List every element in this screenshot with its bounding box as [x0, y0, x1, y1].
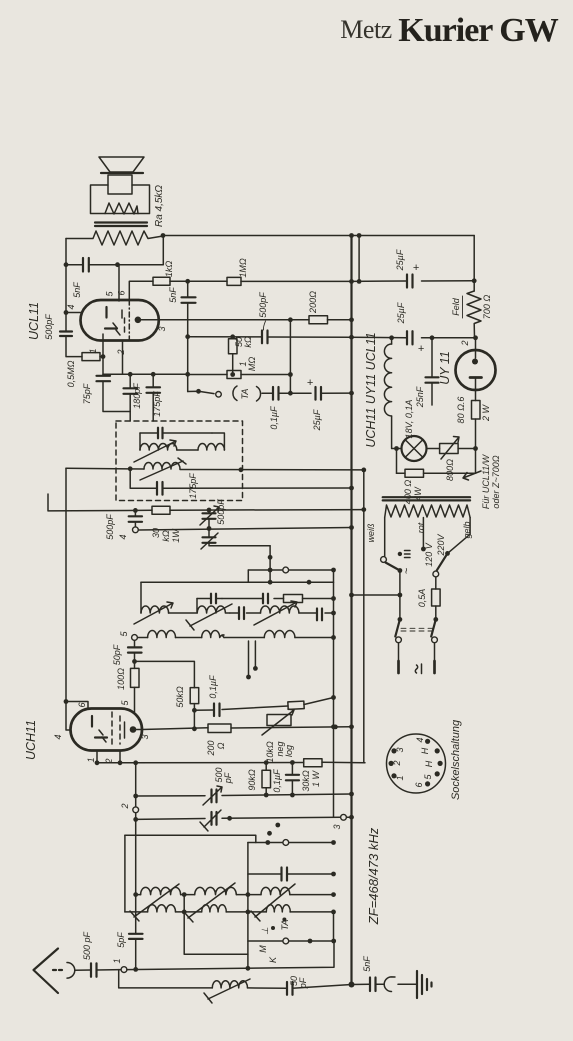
wire weiss tap	[381, 518, 387, 563]
svg-text:H: H	[424, 760, 434, 767]
label 50kOhm	[234, 336, 253, 348]
UCH11 plate	[91, 716, 93, 727]
IF slug T lower	[140, 458, 186, 480]
wire avc	[188, 372, 236, 377]
antenna	[34, 949, 91, 994]
svg-text:200Ω: 200Ω	[308, 291, 318, 314]
capacitor 75pF	[97, 376, 131, 412]
wire B+ corner right	[473, 236, 475, 292]
coil band A2	[148, 631, 176, 638]
svg-text:25µF: 25µF	[312, 409, 322, 431]
wire g2 line	[194, 698, 333, 711]
svg-text:log: log	[284, 745, 294, 757]
slug arrow A1	[134, 602, 173, 624]
coil band C1	[261, 606, 299, 613]
svg-text:700 Ω: 700 Ω	[482, 295, 492, 320]
svg-text:500pF: 500pF	[258, 292, 268, 318]
svg-text:500pF: 500pF	[216, 499, 226, 525]
label 500pF coupling	[258, 292, 268, 330]
switch blade weiss	[386, 563, 403, 573]
wire pin5 stem	[118, 265, 120, 301]
capacitor band a	[211, 594, 222, 604]
wire band vertical 270	[268, 546, 273, 585]
potentiometer 10kOhm	[262, 709, 294, 735]
svg-text:2: 2	[116, 349, 126, 355]
wire 661 branch	[135, 661, 195, 687]
wire B+ bus top	[163, 235, 474, 237]
svg-text:3: 3	[140, 734, 150, 739]
svg-text:6: 6	[414, 782, 424, 787]
label Feld	[451, 296, 463, 318]
wire band rail 582	[141, 580, 334, 585]
svg-text:5nF: 5nF	[168, 287, 178, 303]
svg-text:H: H	[420, 747, 430, 754]
coil band B1	[197, 606, 230, 613]
svg-text:800Ω: 800Ω	[445, 459, 455, 481]
svg-text:+: +	[307, 377, 314, 389]
socket pin labels	[392, 737, 434, 787]
UCL11 pentode bars	[122, 310, 125, 336]
svg-text:175pF: 175pF	[188, 473, 198, 499]
capacitor padder	[248, 868, 336, 881]
resistor 1MOhm	[227, 277, 241, 285]
tube UCL11	[81, 300, 159, 341]
UCL11 diode dot pin3	[135, 317, 159, 324]
wire pin4	[64, 310, 81, 315]
IF coil primary	[140, 433, 198, 450]
svg-text:0,1µF: 0,1µF	[208, 675, 218, 699]
terminal 1 antenna	[112, 941, 334, 972]
terminal 5 band	[119, 631, 137, 641]
UCL11 grid ticks	[113, 323, 120, 335]
svg-text:10kΩ: 10kΩ	[265, 741, 275, 763]
IF coil secondary small	[198, 433, 224, 450]
capacitor 5nF anode	[83, 258, 89, 272]
svg-text:MΩ: MΩ	[247, 357, 257, 371]
wire stubs C right	[246, 641, 258, 679]
wire pin1 down	[101, 341, 106, 376]
capacitor 50pF antenna	[287, 982, 352, 995]
capacitor 500pF avc	[129, 510, 142, 526]
capacitor 0,1uF g2	[214, 704, 220, 717]
slug T osc B1	[184, 883, 235, 922]
svg-text:175pF: 175pF	[152, 391, 162, 417]
wire bus 763	[97, 760, 365, 765]
svg-text:3: 3	[395, 747, 405, 752]
UCH11 hexode bars	[120, 716, 125, 744]
svg-text:90kΩ: 90kΩ	[247, 769, 257, 791]
svg-text:25nF: 25nF	[415, 386, 425, 408]
coil osc B2	[202, 905, 227, 912]
wire osc row2	[125, 910, 336, 915]
coil band B2	[202, 631, 224, 638]
bus main vertical	[349, 233, 355, 987]
svg-text:UY 11: UY 11	[438, 351, 452, 385]
svg-text:50pF: 50pF	[112, 644, 122, 665]
svg-text:1: 1	[86, 757, 96, 762]
svg-text:kΩ: kΩ	[243, 336, 253, 348]
svg-text:200: 200	[206, 740, 216, 756]
UCL11 plate	[105, 307, 107, 318]
capacitor band b	[263, 594, 268, 604]
resistor output primary	[66, 231, 163, 245]
label 500pF b	[214, 767, 233, 784]
capacitor 25uF reservoir	[352, 262, 477, 288]
capacitor 25uF cathode	[307, 377, 352, 400]
wire to node A	[170, 279, 227, 284]
svg-text:Für UCL11/W: Für UCL11/W	[481, 453, 491, 509]
svg-text:3: 3	[157, 326, 167, 331]
terminal 4	[118, 527, 138, 540]
svg-text:2 W: 2 W	[481, 404, 491, 423]
wire osc left 248	[247, 843, 249, 955]
potentiometer 800 Ohm	[427, 437, 478, 460]
wire anode to node	[89, 236, 164, 268]
capacitor 500pF antenna	[91, 963, 121, 977]
lamp	[402, 436, 427, 461]
label 50pF antenna	[289, 976, 308, 989]
coil band C2	[264, 631, 295, 638]
wire jog top	[357, 233, 362, 284]
UCH11 screen dashed	[111, 712, 113, 747]
svg-text:Metz: Metz	[340, 15, 391, 44]
resistor 0,5MOhm	[82, 353, 103, 361]
wire 795	[136, 794, 352, 796]
coil osc B1	[195, 887, 237, 894]
svg-text:2: 2	[392, 760, 402, 766]
svg-text:TA: TA	[240, 389, 250, 400]
label 30kOhm 1W b	[301, 770, 321, 792]
resistor Feld 700 Ohm	[467, 291, 481, 338]
wire pin6 to 1k	[129, 281, 153, 300]
resistor 30kOhm 1W	[152, 506, 170, 514]
svg-text:500pF: 500pF	[105, 514, 115, 540]
bus heater vertical	[361, 468, 366, 763]
svg-text:weiß: weiß	[366, 523, 376, 543]
capacitor 180pF	[124, 374, 138, 421]
wire band right verticals	[331, 570, 336, 817]
pin labels UCH11	[53, 700, 150, 765]
wire osc row1	[136, 892, 336, 897]
capacitor 500pF coupling	[262, 331, 352, 344]
resistor 200 Ohm UCH	[208, 724, 352, 733]
svg-text:120 V: 120 V	[424, 542, 434, 567]
coil osc A2	[148, 905, 176, 912]
capacitor 50pF osc	[128, 640, 142, 663]
transformer core mains	[383, 497, 470, 500]
svg-text:~: ~	[401, 567, 413, 574]
resistor band	[284, 595, 303, 603]
earphone jack	[384, 977, 417, 992]
jack TA	[233, 386, 261, 401]
label plug AC	[415, 664, 421, 674]
resistor 1MOhm avc	[227, 371, 293, 379]
trimmer 500pF osc1	[200, 506, 219, 528]
svg-text:18V, 0,1A: 18V, 0,1A	[404, 400, 414, 439]
svg-text:Sockelschaltung: Sockelschaltung	[450, 719, 462, 800]
svg-text:1: 1	[112, 958, 122, 963]
UCH11 cathode	[95, 736, 107, 738]
svg-text:1kΩ: 1kΩ	[164, 261, 174, 278]
svg-text:2: 2	[460, 340, 470, 346]
symbol DC bars	[398, 551, 410, 558]
IF slug arrow	[134, 440, 176, 462]
slug T antenna coil	[204, 979, 250, 1003]
svg-text:4: 4	[53, 734, 63, 739]
svg-text:4W: 4W	[413, 486, 423, 501]
wire coil pack vertical 2	[120, 763, 139, 934]
capacitor band d	[317, 609, 322, 621]
svg-text:1MΩ: 1MΩ	[238, 258, 248, 278]
UCL11 cathode	[103, 329, 117, 341]
switch mains double	[395, 619, 437, 642]
resistor 90kOhm	[262, 763, 271, 798]
wire osc 842	[248, 840, 336, 846]
svg-text:⊥: ⊥	[260, 927, 270, 935]
svg-text:0,5A: 0,5A	[417, 589, 427, 608]
wire avc 527	[138, 528, 351, 531]
socket pins	[389, 739, 443, 787]
UCH11 grid ticks	[99, 730, 106, 742]
trimmer cap osc2	[201, 526, 270, 549]
wire rot tap	[421, 518, 426, 552]
switch blade 220	[433, 553, 448, 576]
svg-text:5pF: 5pF	[116, 932, 126, 948]
svg-text:2: 2	[104, 758, 114, 764]
svg-text:25µF: 25µF	[396, 302, 406, 324]
IF cap lower 175pF	[130, 469, 351, 495]
capacitor 5nF grid	[182, 281, 196, 391]
speaker LS	[91, 157, 150, 214]
wire pin6 UCH	[64, 699, 88, 708]
svg-text:30kΩ: 30kΩ	[301, 770, 311, 792]
wire band rail 598	[197, 599, 334, 613]
svg-text:pF: pF	[298, 977, 308, 989]
capacitor 500pF left	[60, 332, 82, 357]
svg-text:oder Z~700Ω: oder Z~700Ω	[491, 455, 501, 508]
capacitor 25nF	[426, 335, 439, 405]
svg-text:+: +	[413, 262, 420, 274]
svg-text:kΩ: kΩ	[161, 530, 171, 542]
IF transformer dashed box	[116, 421, 243, 501]
wire 818	[136, 814, 352, 829]
wire antenna lower branch	[119, 970, 213, 988]
wire osc 941	[248, 912, 336, 944]
socket circle	[387, 734, 446, 793]
wire osc bottom vertical	[184, 895, 250, 971]
wire pin3 plate	[159, 317, 309, 322]
capacitor 0,1uF b	[286, 763, 299, 798]
svg-text:0,1µF: 0,1µF	[269, 406, 279, 430]
svg-text:80 Ω.6: 80 Ω.6	[456, 397, 466, 424]
tube UY11	[456, 350, 496, 390]
svg-text:75pF: 75pF	[82, 383, 92, 404]
coil osc A1	[141, 887, 181, 894]
svg-text:5nF: 5nF	[362, 956, 372, 972]
ground	[417, 971, 432, 998]
IF cap primary	[140, 428, 212, 439]
svg-text:0,1µF: 0,1µF	[272, 769, 282, 793]
svg-text:500pF: 500pF	[44, 314, 54, 340]
wire pin3 UCH	[142, 728, 208, 730]
tube UCH11	[71, 709, 143, 751]
svg-text:Ω: Ω	[216, 742, 226, 749]
slug T B1	[186, 604, 232, 630]
trimmer 500pF b	[203, 786, 222, 805]
label 400 Ohm 4W	[403, 480, 423, 505]
switch TA	[188, 389, 222, 397]
node B+	[161, 233, 166, 238]
label 10kOhm neg log	[265, 741, 294, 763]
label 200 Ohm UCH	[206, 740, 226, 756]
svg-text:6: 6	[117, 290, 127, 295]
svg-text:1: 1	[395, 775, 405, 780]
coil antenna	[212, 981, 247, 988]
wire cathode 338	[352, 335, 478, 350]
wire 1M to bus	[241, 280, 352, 282]
resistor 50kOhm	[229, 337, 238, 375]
wire pins12 UCH	[95, 751, 123, 766]
plug pins	[399, 643, 435, 673]
resistor speaker field zigzag	[105, 203, 138, 214]
svg-text:UCL11: UCL11	[27, 302, 41, 340]
svg-text:180pF: 180pF	[132, 383, 142, 409]
UCH11 triode dot pin3	[130, 726, 142, 733]
capacitor 5nF af	[370, 978, 384, 992]
wire avc bus 509	[48, 494, 364, 513]
svg-text:4: 4	[118, 534, 128, 539]
trimmer cap c	[200, 810, 221, 831]
slug arrow C1	[254, 601, 297, 625]
capacitor 5pF	[129, 934, 143, 972]
svg-text:UCH11: UCH11	[24, 720, 38, 760]
svg-text:5nF: 5nF	[72, 282, 82, 298]
capacitor band c	[239, 607, 244, 619]
wire pin2 down	[122, 341, 124, 375]
svg-text:pF: pF	[223, 772, 233, 784]
svg-text:Feld: Feld	[451, 297, 461, 316]
resistor 100 Ohm	[131, 661, 140, 712]
capacitor 0,1uF	[262, 387, 311, 400]
svg-text:UCH11 UY11 UCL11: UCH11 UY11 UCL11	[364, 332, 378, 447]
resistor g2 right	[288, 701, 304, 709]
transformer core	[95, 223, 147, 227]
wire anode	[64, 262, 83, 267]
wire ground branch	[352, 983, 370, 985]
label 30kOhm 1W	[151, 528, 181, 543]
wire band row1	[141, 582, 334, 613]
svg-text:Ra 4,5kΩ: Ra 4,5kΩ	[154, 185, 165, 227]
capacitor 25uF cathode UY	[407, 331, 425, 355]
resistor 30kOhm 1W b	[304, 759, 322, 767]
svg-text:25µF: 25µF	[395, 249, 405, 271]
wire vertical 290	[289, 320, 291, 393]
label Fuer UCL11/W	[463, 453, 501, 509]
wire gelb tap	[445, 518, 470, 556]
coil band A1	[141, 606, 169, 613]
wire band top 570	[248, 567, 336, 582]
svg-text:100Ω: 100Ω	[116, 668, 126, 690]
svg-text:220V: 220V	[436, 533, 446, 556]
resistor 200 Ohm	[309, 316, 352, 324]
svg-text:ZF=468/473 kHz: ZF=468/473 kHz	[366, 827, 381, 925]
wire grid line horizontal	[103, 372, 190, 377]
wire osc 835	[125, 835, 256, 842]
wire osc left vertical	[124, 835, 126, 912]
svg-text:K: K	[268, 956, 278, 963]
junction dots osc top	[267, 823, 280, 836]
svg-text:0,5MΩ: 0,5MΩ	[66, 360, 76, 387]
svg-text:3: 3	[332, 824, 342, 829]
fuse 0,5A	[432, 577, 441, 622]
svg-text:6: 6	[77, 702, 87, 707]
coil osc C1	[261, 887, 290, 894]
coil osc C2	[266, 905, 290, 912]
UCL11 screen dashed	[128, 300, 130, 341]
svg-text:4: 4	[66, 304, 76, 309]
svg-text:2: 2	[120, 803, 130, 809]
svg-text:500 pF: 500 pF	[82, 931, 92, 960]
label M K TA	[258, 918, 290, 964]
capacitor 175pF	[147, 374, 161, 421]
wire IF lower 470	[66, 466, 364, 472]
wire to 50pF	[248, 987, 287, 989]
resistor 50kOhm g2	[190, 688, 199, 732]
svg-text:4: 4	[415, 737, 425, 742]
svg-text:M: M	[258, 945, 268, 953]
resistor 80 Ohm 2W	[472, 390, 481, 473]
resistor 400 Ohm 4W	[394, 446, 475, 477]
wire mains mid	[352, 571, 403, 622]
winding mains primary	[385, 505, 470, 518]
svg-text:+: +	[418, 343, 425, 355]
svg-text:rot: rot	[416, 522, 426, 533]
svg-text:1 W: 1 W	[311, 770, 321, 788]
slug T osc A1	[130, 884, 179, 921]
wire left bus lower	[66, 468, 71, 730]
resistor 1kOhm	[153, 277, 170, 285]
wire left bus upper	[65, 239, 67, 332]
IF coil lower	[144, 463, 180, 470]
svg-text:Kurier GW: Kurier GW	[398, 12, 558, 49]
wire band row2	[137, 637, 333, 639]
heater chain	[384, 338, 401, 449]
wire 500pF coupling line	[188, 334, 262, 339]
label 1MOhm avc	[238, 357, 257, 371]
svg-text:50kΩ: 50kΩ	[175, 686, 185, 708]
slug T osc C1	[251, 884, 295, 921]
